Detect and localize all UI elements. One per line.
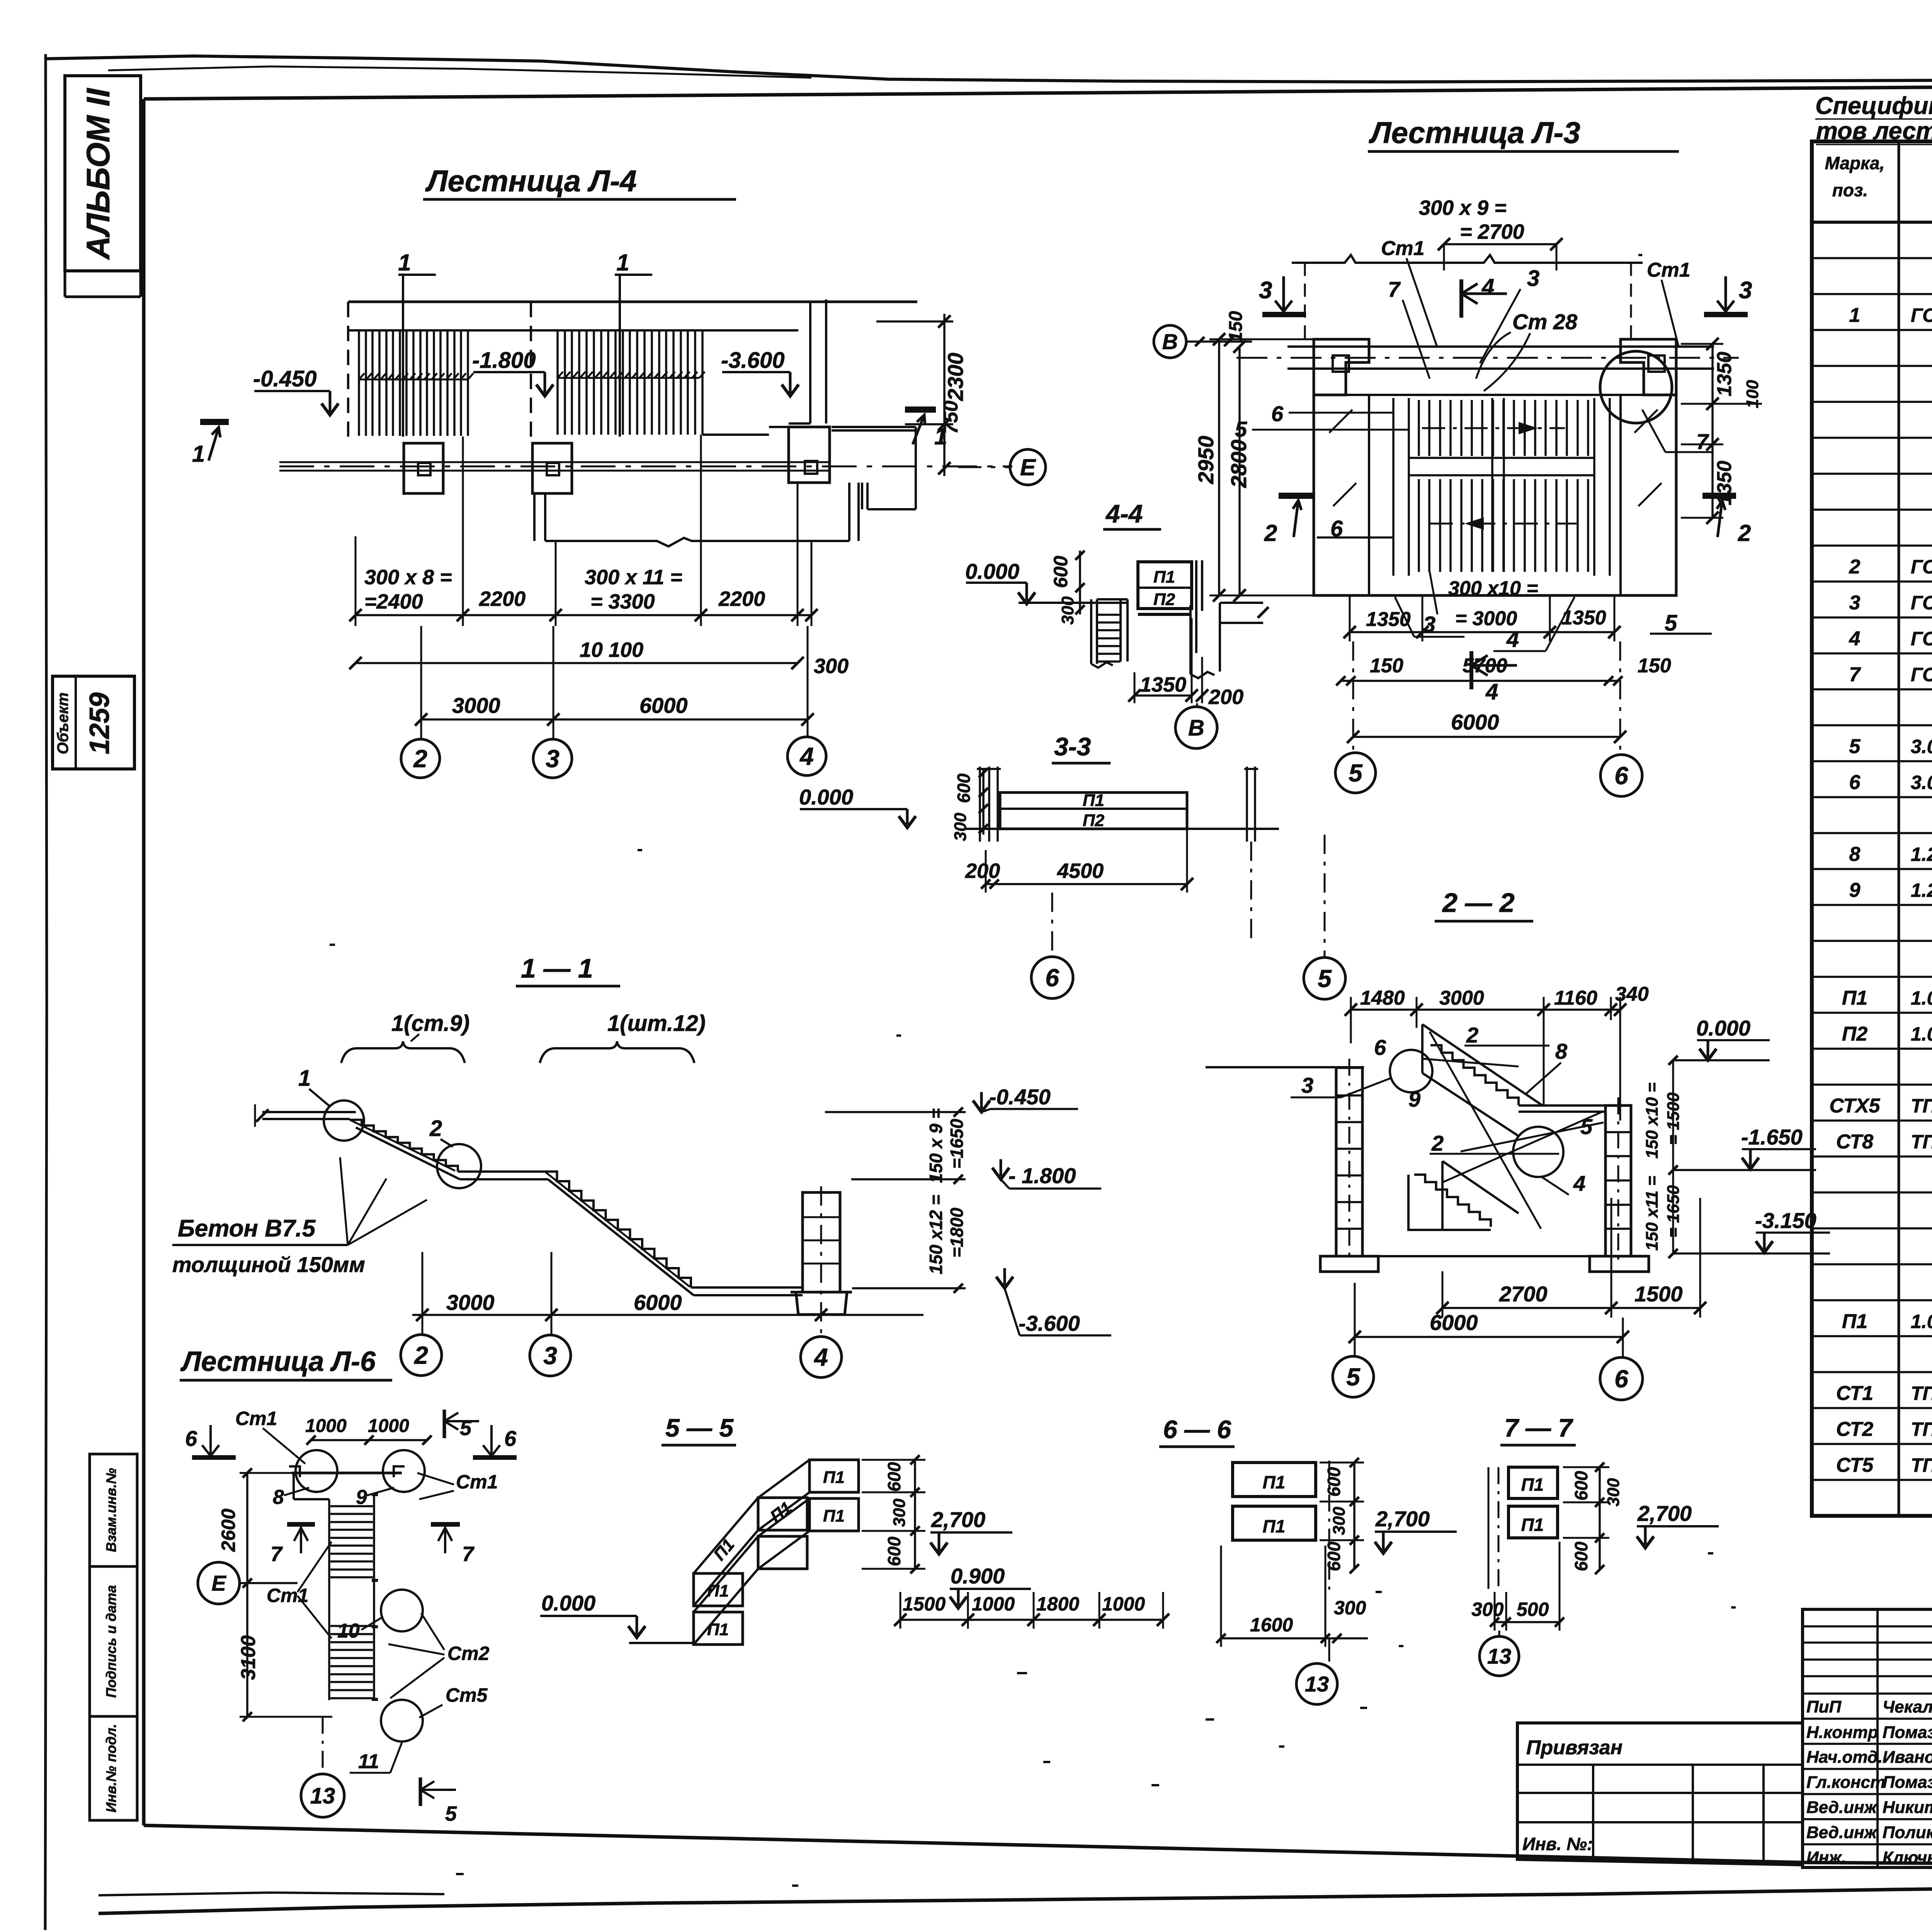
svg-text:13: 13 <box>1487 1644 1511 1668</box>
L-6 lower flight hatch <box>330 1626 373 1698</box>
3-3 slab P1 P2 <box>1000 793 1187 829</box>
7-7 slabs <box>1509 1467 1558 1498</box>
svg-text:В: В <box>1188 715 1204 740</box>
svg-text:2: 2 <box>1264 520 1277 546</box>
svg-text:2300: 2300 <box>943 353 968 401</box>
L-3 mid landing lines <box>1409 458 1594 475</box>
svg-text:340: 340 <box>1615 983 1649 1005</box>
svg-text:1.256 - 1: 1.256 - 1 <box>1911 844 1932 865</box>
svg-text:2800: 2800 <box>1226 440 1251 488</box>
svg-text:2: 2 <box>1849 556 1861 578</box>
L-4 vertical dim 2300/750 <box>876 314 953 476</box>
svg-text:600: 600 <box>1324 1541 1344 1571</box>
svg-text:600: 600 <box>1571 1471 1591 1500</box>
svg-text:Ст5: Ст5 <box>446 1684 488 1706</box>
svg-text:5: 5 <box>445 1802 457 1825</box>
svg-text:10: 10 <box>337 1620 360 1642</box>
svg-text:Помазов: Помазов <box>1883 1773 1932 1792</box>
svg-text:5: 5 <box>460 1417 472 1440</box>
svg-text:6000: 6000 <box>1451 710 1499 734</box>
svg-text:4: 4 <box>1506 627 1519 652</box>
svg-text:4: 4 <box>1573 1171 1585 1196</box>
svg-text:1(ст.9): 1(ст.9) <box>391 1011 469 1036</box>
svg-text:Подпись и дата: Подпись и дата <box>103 1585 119 1698</box>
svg-text:8: 8 <box>1849 843 1861 866</box>
svg-text:4: 4 <box>1481 274 1494 299</box>
svg-text:Вед.инж: Вед.инж <box>1806 1823 1878 1842</box>
1-1 bottom axis dim <box>412 1314 923 1316</box>
1-1 lower flight steps <box>545 1172 691 1287</box>
svg-text:6: 6 <box>504 1426 517 1451</box>
svg-text:150 х12 =: 150 х12 = <box>926 1195 946 1274</box>
svg-text:-3.600: -3.600 <box>1019 1311 1080 1335</box>
L-3 bottom dim 6000 <box>1353 736 1620 738</box>
svg-text:3: 3 <box>1259 277 1272 304</box>
1-1 mid landing <box>458 1172 548 1179</box>
svg-text:8: 8 <box>1555 1039 1568 1063</box>
svg-text:3000: 3000 <box>446 1290 495 1315</box>
L-4 dim chain row 1 <box>355 614 811 616</box>
svg-text:ТП503-5-23.86 КЖИ2-026: ТП503-5-23.86 КЖИ2-026 <box>1911 1418 1932 1440</box>
svg-text:П1: П1 <box>1153 568 1175 587</box>
svg-text:1: 1 <box>398 250 411 276</box>
4-4 slabs P1 P2 <box>1138 562 1192 609</box>
svg-text:В: В <box>1162 330 1178 354</box>
svg-text:6 — 6: 6 — 6 <box>1163 1415 1231 1444</box>
axis circle E <box>958 466 1011 468</box>
svg-text:П1: П1 <box>1083 791 1104 810</box>
svg-text:3000: 3000 <box>1439 987 1484 1009</box>
svg-text:5: 5 <box>1318 964 1332 992</box>
svg-text:2200: 2200 <box>479 587 526 611</box>
svg-text:1000: 1000 <box>305 1416 347 1436</box>
svg-text:Поликарпова: Поликарпова <box>1883 1823 1932 1842</box>
svg-text:5 — 5: 5 — 5 <box>665 1413 734 1442</box>
1-1 column pier <box>803 1192 840 1292</box>
L-4 column axis beam lines <box>279 462 830 471</box>
7-7 dims 600 300 600 <box>1599 1467 1601 1570</box>
svg-text:4: 4 <box>799 742 814 770</box>
svg-text:300: 300 <box>1330 1507 1349 1535</box>
L-6 flag 5 bottom <box>419 1777 422 1806</box>
svg-text:4-4: 4-4 <box>1105 499 1143 528</box>
L-4 flight hatch 2 <box>558 330 702 435</box>
svg-text:Помазов: Помазов <box>1883 1723 1932 1742</box>
svg-text:2: 2 <box>1466 1023 1478 1047</box>
svg-text:Инв. №:: Инв. №: <box>1522 1834 1593 1854</box>
1-1 top landing <box>262 1112 356 1119</box>
svg-text:1350: 1350 <box>1713 461 1736 505</box>
svg-text:300 х 9 =: 300 х 9 = <box>1419 196 1507 219</box>
svg-text:Ст1: Ст1 <box>1647 259 1690 281</box>
L-3 bottom dim 1350/3000/1350 <box>1350 631 1614 633</box>
sheet left edge <box>45 54 47 1930</box>
axis circle 2 <box>401 739 440 778</box>
svg-text:300: 300 <box>890 1498 909 1527</box>
svg-text:ТП503-5-23.86 КЖИ2÷029: ТП503-5-23.86 КЖИ2÷029 <box>1911 1095 1932 1117</box>
svg-text:10 100: 10 100 <box>580 638 643 662</box>
svg-text:Ключникова: Ключникова <box>1883 1848 1932 1867</box>
svg-text:1480: 1480 <box>1360 987 1405 1009</box>
svg-text:Н.контр: Н.контр <box>1806 1723 1878 1742</box>
title block: signature table <box>1803 1609 1932 1867</box>
svg-text:1600: 1600 <box>1250 1614 1293 1636</box>
L-3 bottom dim 150/5700/150 <box>1341 680 1618 682</box>
svg-text:3.006.1 - 2/82.1 - 2: 3.006.1 - 2/82.1 - 2 <box>1911 736 1932 757</box>
3-3 axis circles 6 5 <box>1052 835 1325 957</box>
L-3 beam band <box>1287 347 1714 369</box>
4-4 stair steps left <box>1091 599 1097 664</box>
svg-text:600: 600 <box>884 1462 904 1492</box>
L-4 right wall corner <box>789 299 826 423</box>
L-4 section cut line 1 (left) <box>398 275 436 437</box>
svg-text:1350: 1350 <box>1713 352 1736 396</box>
L-3 detail circle St1/St28 node <box>1600 351 1672 423</box>
svg-text:ПиП: ПиП <box>1806 1697 1842 1716</box>
2-2 top dim 1480/3000/1160/340 <box>1351 1009 1620 1011</box>
svg-text:2200: 2200 <box>718 587 765 611</box>
5-5 isometric connecting edges <box>694 1460 810 1645</box>
svg-text:П1: П1 <box>1521 1475 1544 1495</box>
svg-text:ГОСТ 8717.0 - 84: ГОСТ 8717.0 - 84 <box>1911 556 1932 578</box>
svg-text:300: 300 <box>1334 1597 1366 1619</box>
2-2 mid landing <box>1519 1105 1605 1112</box>
svg-text:1: 1 <box>616 250 629 276</box>
svg-text:5: 5 <box>1580 1114 1593 1139</box>
svg-text:СТХ5: СТХ5 <box>1830 1095 1881 1117</box>
svg-text:2: 2 <box>429 1116 442 1141</box>
L-3 top view mark 4 <box>1459 279 1463 318</box>
L-4 right beam to axis E <box>832 427 916 509</box>
svg-text:1800: 1800 <box>1036 1593 1079 1615</box>
L-6 upper flight hatch <box>330 1506 373 1577</box>
svg-text:2950: 2950 <box>1194 436 1218 485</box>
2-2 floor line left <box>1206 1066 1364 1068</box>
axis circle 4 <box>787 737 826 776</box>
svg-text:300: 300 <box>1471 1599 1504 1620</box>
L-6 rails <box>329 1495 374 1700</box>
svg-text:5: 5 <box>1235 417 1247 441</box>
svg-text:П1: П1 <box>1842 1310 1867 1333</box>
svg-text:-3.150: -3.150 <box>1755 1208 1816 1233</box>
svg-text:5700: 5700 <box>1463 655 1507 677</box>
L-3 axis circles 5 6 <box>1353 641 1620 755</box>
svg-text:5: 5 <box>1849 735 1861 758</box>
sidebar: ALBOM II box <box>65 76 141 271</box>
L-6 axis circle 13 <box>322 1717 324 1773</box>
2-2 lower flight <box>1442 1161 1519 1230</box>
svg-text:1259: 1259 <box>84 692 115 754</box>
axis circles 2 3 4 below 1-1 <box>401 1335 442 1376</box>
svg-text:6: 6 <box>1614 762 1628 789</box>
svg-text:6000: 6000 <box>1430 1310 1478 1335</box>
svg-text:ГОСТ 8717.0 - 84: ГОСТ 8717.0 - 84 <box>1911 628 1932 650</box>
svg-text:1350: 1350 <box>1366 608 1411 631</box>
spec table frame <box>1812 141 1932 1516</box>
2-2 bottom dims 2700 1500 <box>1442 1307 1700 1309</box>
7-7 axis circle 13 <box>1498 1631 1500 1636</box>
drawing frame <box>144 83 1932 99</box>
svg-text:6: 6 <box>1849 771 1861 794</box>
L-6 axis E circle <box>198 1562 240 1604</box>
svg-text:П1: П1 <box>1842 987 1867 1009</box>
svg-text:Нач.отд.: Нач.отд. <box>1806 1748 1883 1767</box>
L-3 left column <box>1314 339 1369 395</box>
L-6 left dim 2600/3100 <box>246 1473 248 1717</box>
svg-text:300: 300 <box>814 655 849 678</box>
L-3 right vertical dims 1350 100 1350 <box>1711 344 1714 518</box>
svg-text:600: 600 <box>1571 1541 1591 1571</box>
svg-text:200: 200 <box>965 859 1000 883</box>
svg-text:1000: 1000 <box>1102 1593 1145 1615</box>
6-6 slabs <box>1233 1463 1316 1497</box>
svg-text:Лестница Л-4: Лестница Л-4 <box>425 164 637 198</box>
6-6 dims 600 300 600 <box>1353 1463 1355 1569</box>
2-2 left pier <box>1336 1068 1362 1256</box>
svg-text:П1: П1 <box>1521 1515 1544 1535</box>
svg-text:300: 300 <box>1058 596 1077 625</box>
svg-text:=2400: =2400 <box>364 590 423 613</box>
svg-text:-3.600: -3.600 <box>721 348 784 373</box>
svg-text:13: 13 <box>310 1783 335 1808</box>
4-4 beam right <box>1220 603 1263 623</box>
svg-text:Инж.: Инж. <box>1806 1848 1846 1867</box>
svg-text:1.000.8 - 1- 21: 1.000.8 - 1- 21 <box>1911 987 1932 1009</box>
L-4 flight hatch 1 <box>359 331 468 436</box>
L-4 landing edge <box>702 427 789 435</box>
svg-text:600: 600 <box>884 1536 904 1566</box>
svg-text:4: 4 <box>1485 679 1498 704</box>
svg-text:100: 100 <box>1743 380 1762 408</box>
L-4 column 2 <box>404 443 443 493</box>
svg-text:Вед.инж: Вед.инж <box>1806 1798 1878 1817</box>
svg-text:-1.800: -1.800 <box>472 348 536 373</box>
svg-text:2: 2 <box>413 745 427 772</box>
svg-text:АЛЬБОМ II: АЛЬБОМ II <box>80 88 116 260</box>
svg-text:6: 6 <box>1271 401 1284 426</box>
svg-text:3: 3 <box>1301 1073 1313 1097</box>
L-6 landing edge <box>294 1473 329 1499</box>
svg-text:=1650: =1650 <box>947 1119 967 1169</box>
svg-text:3: 3 <box>543 1342 557 1369</box>
svg-text:1: 1 <box>1849 304 1861 327</box>
L-3 right column <box>1621 339 1676 395</box>
L-3 top wall broken line <box>1292 255 1643 263</box>
sheet top edge wavy <box>46 56 1932 82</box>
svg-text:Марка,: Марка, <box>1825 153 1885 173</box>
svg-text:6: 6 <box>1374 1035 1386 1060</box>
svg-text:=1800: =1800 <box>947 1207 967 1258</box>
svg-text:2: 2 <box>1431 1131 1444 1155</box>
svg-text:ТП503-5-23.86 КЖИ2-029: ТП503-5-23.86 КЖИ2-029 <box>1911 1454 1932 1476</box>
svg-text:6: 6 <box>1045 964 1059 992</box>
svg-text:Лестница Л-6: Лестница Л-6 <box>180 1346 376 1377</box>
svg-text:150 х 9 =: 150 х 9 = <box>926 1108 946 1183</box>
svg-text:2,700: 2,700 <box>931 1507 985 1532</box>
svg-text:5: 5 <box>1346 1363 1361 1391</box>
svg-text:3: 3 <box>1739 277 1752 304</box>
svg-text:-0.450: -0.450 <box>989 1085 1051 1109</box>
1-1 right level lines <box>825 1112 966 1288</box>
2-2 leader diagonals <box>1422 1032 1604 1229</box>
svg-text:0.000: 0.000 <box>541 1591 595 1615</box>
svg-text:2700: 2700 <box>1499 1282 1548 1306</box>
svg-text:1350: 1350 <box>1140 673 1186 696</box>
svg-text:Ст2: Ст2 <box>447 1643 490 1664</box>
svg-text:2600: 2600 <box>218 1509 239 1552</box>
svg-text:0.000: 0.000 <box>965 559 1019 583</box>
svg-text:750: 750 <box>940 401 962 434</box>
L-4 view mark 1 (right) <box>905 406 936 413</box>
L-4 column 3 <box>532 443 572 493</box>
svg-text:= 1500: = 1500 <box>1664 1092 1683 1145</box>
2-2 upper flight <box>1422 1024 1543 1105</box>
svg-text:600: 600 <box>1324 1467 1344 1497</box>
6-6 axis circle 13 <box>1328 1638 1330 1662</box>
svg-text:9: 9 <box>1408 1087 1420 1111</box>
L-4 plan walls <box>348 301 917 303</box>
svg-text:1.256 - 1: 1.256 - 1 <box>1911 879 1932 901</box>
svg-text:4: 4 <box>813 1343 828 1371</box>
3-3 ground line <box>966 828 1279 830</box>
svg-text:6: 6 <box>185 1426 197 1451</box>
1-1 bottom landing <box>691 1287 803 1295</box>
svg-text:П1: П1 <box>823 1468 845 1487</box>
3-3 left post <box>977 767 1001 842</box>
svg-text:9: 9 <box>1849 879 1861 901</box>
svg-text:П1: П1 <box>1263 1516 1286 1536</box>
svg-text:1350: 1350 <box>1561 607 1606 629</box>
svg-text:ГОСТ 8717.0 - 84: ГОСТ 8717.0 - 84 <box>1911 664 1932 685</box>
L-3 stair rails <box>1393 398 1610 576</box>
svg-text:0.900: 0.900 <box>951 1564 1005 1588</box>
svg-text:Взам.инв.№: Взам.инв.№ <box>103 1468 119 1552</box>
svg-text:2 — 2: 2 — 2 <box>1442 888 1515 918</box>
svg-text:7: 7 <box>1849 663 1861 686</box>
L-4 view mark 1 (left) <box>200 419 229 425</box>
svg-text:Чекалов: Чекалов <box>1883 1697 1932 1716</box>
svg-text:Иванов: Иванов <box>1883 1748 1932 1767</box>
svg-text:3100: 3100 <box>237 1635 260 1680</box>
svg-text:300 х 8 =: 300 х 8 = <box>364 566 452 589</box>
svg-text:ТП503-5-23.86 КЖИ2-025: ТП503-5-23.86 КЖИ2-025 <box>1911 1383 1932 1404</box>
svg-text:6: 6 <box>1614 1365 1628 1393</box>
svg-text:3: 3 <box>1849 592 1861 614</box>
sidebar: Object 1259 box <box>53 676 134 769</box>
svg-text:СТ1: СТ1 <box>1836 1382 1873 1405</box>
2-2 right pier <box>1605 1105 1631 1256</box>
L-6 detail circles top <box>296 1450 337 1492</box>
svg-text:1(шт.12): 1(шт.12) <box>607 1011 706 1036</box>
L-3 landing diagonals <box>1329 410 1662 506</box>
svg-text:300 х10 =: 300 х10 = <box>1448 577 1538 600</box>
svg-text:СТ8: СТ8 <box>1836 1131 1873 1153</box>
svg-text:1: 1 <box>192 441 205 467</box>
svg-text:Ст1: Ст1 <box>235 1408 277 1429</box>
svg-text:13: 13 <box>1305 1672 1329 1696</box>
svg-text:300 х 11 =: 300 х 11 = <box>585 566 682 589</box>
svg-text:П2: П2 <box>1153 590 1175 609</box>
L-3 outer box <box>1314 339 1676 595</box>
svg-text:600: 600 <box>954 773 974 803</box>
3-3 vert dims 600 300 <box>982 769 985 835</box>
svg-text:8: 8 <box>273 1486 284 1509</box>
2-2 bottom dim 6000 + circles 5 6 <box>1355 1336 1623 1338</box>
L-6 plan top rail <box>292 1472 402 1475</box>
svg-text:СТ2: СТ2 <box>1836 1418 1873 1440</box>
svg-text:= 3000: = 3000 <box>1455 607 1517 630</box>
4-4 axis circle B <box>1196 703 1198 706</box>
L-4 axis verticals to circles <box>421 626 808 739</box>
svg-text:Спецификация к схемам распо: Спецификация к схемам расположения элеме… <box>1815 92 1932 119</box>
L-3 view mark 2 (right) <box>1702 493 1736 499</box>
svg-text:= 1650: = 1650 <box>1664 1185 1683 1238</box>
svg-text:3: 3 <box>1527 266 1539 291</box>
svg-text:1160: 1160 <box>1554 987 1597 1009</box>
svg-text:Привязан: Привязан <box>1526 1736 1622 1759</box>
svg-text:1000: 1000 <box>972 1593 1015 1615</box>
svg-text:Гл.конст: Гл.конст <box>1806 1773 1885 1792</box>
L-4 section cut line 1 (right) <box>615 275 652 437</box>
svg-text:3000: 3000 <box>452 693 500 718</box>
1-1 upper flight steps <box>350 1120 458 1172</box>
scan specks <box>330 255 1736 1886</box>
svg-text:7: 7 <box>270 1543 283 1566</box>
L-3 left vertical dims 2950 2800 <box>1219 339 1240 595</box>
title block annex: Privyazan grid <box>1517 1723 1803 1865</box>
svg-text:= 3300: = 3300 <box>590 590 655 613</box>
L-3 bottom view mark 4 <box>1469 651 1473 689</box>
svg-text:-0.450: -0.450 <box>253 366 316 391</box>
4-4 vert dim 600/300 <box>1079 551 1081 614</box>
svg-text:-1.650: -1.650 <box>1741 1125 1803 1149</box>
svg-text:П1: П1 <box>707 1620 729 1639</box>
L-3 lower flight hatch <box>1419 479 1588 572</box>
L-6 flag 5 top <box>443 1410 446 1438</box>
L-4 dim chain row 2: 10100 <box>355 662 798 664</box>
2-2 bottom floor <box>1362 1255 1605 1257</box>
svg-text:ГОСТ 8717.0 - 84: ГОСТ 8717.0 - 84 <box>1911 304 1932 326</box>
svg-text:600: 600 <box>1050 556 1071 588</box>
svg-text:0.000: 0.000 <box>1696 1016 1750 1040</box>
svg-text:1.000.8 - 1- 21: 1.000.8 - 1- 21 <box>1911 1311 1932 1332</box>
svg-text:1500: 1500 <box>903 1593 946 1615</box>
svg-text:поз.: поз. <box>1832 180 1868 200</box>
svg-text:2,700: 2,700 <box>1637 1501 1692 1526</box>
svg-text:7: 7 <box>1388 277 1401 301</box>
svg-text:Бетон В7.5: Бетон В7.5 <box>178 1215 316 1242</box>
5-5 right dims 600 300 600 <box>914 1460 916 1569</box>
svg-text:6000: 6000 <box>634 1290 682 1315</box>
svg-text:150 х11 =: 150 х11 = <box>1643 1176 1662 1251</box>
svg-text:4: 4 <box>1849 628 1861 650</box>
svg-text:6000: 6000 <box>639 693 688 718</box>
svg-text:7 — 7: 7 — 7 <box>1504 1413 1573 1442</box>
svg-text:1: 1 <box>298 1066 311 1091</box>
svg-text:300: 300 <box>1604 1478 1623 1507</box>
svg-text:Лестница Л-3: Лестница Л-3 <box>1369 116 1580 150</box>
svg-text:П1: П1 <box>823 1507 845 1526</box>
svg-text:1500: 1500 <box>1634 1282 1683 1306</box>
2-2 detail circles <box>1390 1050 1432 1092</box>
svg-text:Е: Е <box>1020 454 1036 480</box>
L-6 bottom circle <box>381 1700 423 1742</box>
svg-text:11: 11 <box>358 1750 379 1773</box>
svg-text:Никитина: Никитина <box>1883 1798 1932 1817</box>
svg-text:Е: Е <box>211 1571 226 1595</box>
svg-text:0.000: 0.000 <box>799 785 853 809</box>
svg-text:Ст 28: Ст 28 <box>1512 310 1578 334</box>
